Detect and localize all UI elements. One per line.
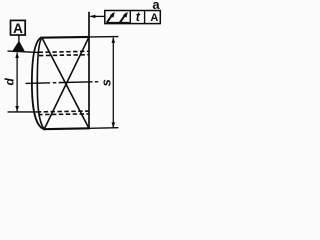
svg-text:d: d xyxy=(3,77,17,85)
svg-text:A: A xyxy=(150,12,158,24)
svg-text:A: A xyxy=(13,21,23,36)
svg-text:s: s xyxy=(99,79,114,86)
svg-text:a: a xyxy=(152,0,160,12)
